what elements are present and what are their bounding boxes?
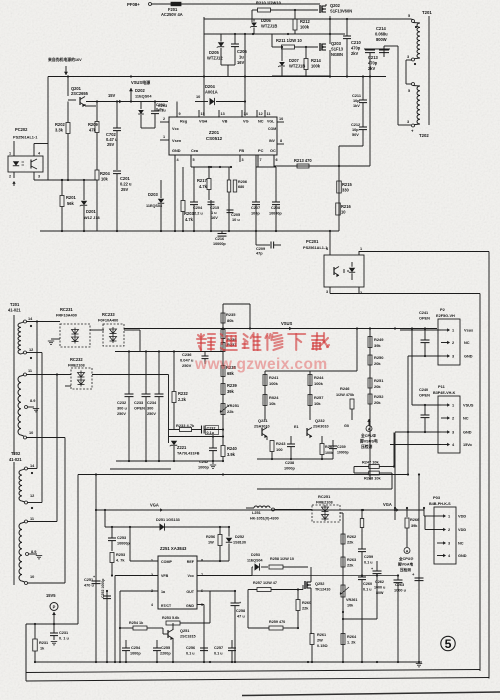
svg-text:PS2561AL1-1: PS2561AL1-1	[303, 246, 328, 250]
svg-text:2: 2	[151, 573, 153, 577]
svg-text:C207: C207	[251, 206, 260, 210]
svg-text:脚VGA电: 脚VGA电	[397, 562, 413, 567]
svg-text:20k: 20k	[374, 361, 381, 366]
svg-text:1/2W 470k: 1/2W 470k	[336, 393, 355, 397]
svg-text:R251: R251	[374, 378, 384, 383]
svg-text:300 u: 300 u	[117, 407, 127, 411]
svg-text:4.7k: 4.7k	[185, 217, 194, 222]
svg-text:C202: C202	[156, 103, 165, 107]
svg-text:C239: C239	[337, 445, 346, 449]
svg-text:E2F5G-VH: E2F5G-VH	[436, 314, 455, 318]
svg-text:2W: 2W	[317, 639, 323, 643]
svg-text:2SC1815: 2SC1815	[180, 635, 196, 639]
svg-text:R202: R202	[55, 122, 65, 127]
svg-text:R209: R209	[88, 122, 98, 127]
svg-text:C215: C215	[210, 206, 220, 210]
svg-text:10000p: 10000p	[269, 212, 282, 216]
svg-text:C236: C236	[182, 352, 192, 357]
svg-text:2SC2655: 2SC2655	[71, 91, 89, 96]
svg-text:1S8130: 1S8130	[233, 541, 246, 545]
svg-text:R258 1/2W 10: R258 1/2W 10	[270, 557, 294, 561]
svg-text:1kV: 1kV	[353, 104, 360, 108]
svg-text:HK-1051(X)-4300: HK-1051(X)-4300	[250, 517, 279, 521]
svg-text:0.22 u: 0.22 u	[120, 182, 132, 187]
svg-text:R253: R253	[116, 553, 125, 557]
svg-text:C240: C240	[419, 388, 428, 392]
svg-text:G0: G0	[344, 424, 349, 428]
svg-text:R217: R217	[197, 178, 207, 183]
svg-text:GND: GND	[463, 431, 472, 435]
svg-text:RT/CT: RT/CT	[161, 604, 172, 608]
svg-text:0.1u: 0.1u	[207, 431, 215, 435]
svg-text:1: 1	[151, 559, 153, 563]
svg-text:L251: L251	[252, 511, 262, 515]
svg-text:15V: 15V	[108, 93, 116, 98]
svg-text:0.1 u: 0.1 u	[214, 652, 223, 656]
svg-text:3: 3	[38, 175, 40, 179]
svg-text:0.1 u: 0.1 u	[363, 588, 372, 592]
svg-text:100k: 100k	[269, 381, 279, 386]
svg-text:0. 1 u: 0. 1 u	[59, 637, 69, 641]
svg-text:VGA: VGA	[383, 502, 392, 507]
svg-text:3: 3	[448, 542, 450, 546]
svg-text:WTZJ1B: WTZJ1B	[289, 64, 305, 69]
svg-text:C232: C232	[117, 401, 126, 405]
svg-text:C252 1000p: C252 1000p	[101, 579, 105, 598]
svg-text:来自伪机电源的16V: 来自伪机电源的16V	[47, 57, 82, 62]
svg-text:NGBN: NGBN	[331, 52, 343, 57]
svg-text:C238: C238	[285, 461, 295, 465]
svg-text:REF: REF	[187, 560, 195, 564]
svg-text:47 u: 47 u	[237, 615, 245, 619]
svg-text:NC: NC	[458, 542, 464, 546]
svg-text:R203: R203	[184, 211, 194, 216]
svg-text:RC251: RC251	[318, 494, 331, 499]
svg-text:5: 5	[201, 603, 203, 607]
svg-text:A001A: A001A	[205, 90, 218, 95]
svg-text:Reg: Reg	[180, 120, 188, 124]
svg-text:3.9k: 3.9k	[227, 452, 236, 457]
svg-text:C205: C205	[231, 213, 241, 217]
svg-text:8.9: 8.9	[31, 550, 36, 554]
svg-text:D205: D205	[209, 50, 219, 55]
svg-text:1. 2k: 1. 2k	[347, 641, 356, 645]
svg-text:3: 3	[242, 158, 244, 162]
svg-text:8.9: 8.9	[30, 399, 35, 403]
svg-text:脚VSUS电: 脚VSUS电	[359, 439, 378, 444]
svg-text:0.1 u: 0.1 u	[364, 561, 373, 565]
svg-text:R204: R204	[100, 171, 110, 176]
svg-text:R264: R264	[347, 635, 357, 639]
svg-text:4. 7k: 4. 7k	[116, 559, 125, 563]
svg-text:2200p: 2200p	[160, 652, 171, 656]
svg-text:Vcc: Vcc	[172, 127, 180, 131]
svg-text:NC: NC	[464, 341, 470, 345]
svg-text:GND: GND	[464, 355, 473, 359]
svg-text:3.3k: 3.3k	[55, 128, 64, 133]
svg-text:3: 3	[452, 431, 454, 435]
svg-text:300: 300	[147, 407, 153, 411]
svg-text:R210 1/2W10: R210 1/2W10	[256, 1, 282, 6]
svg-text:680: 680	[238, 185, 244, 189]
svg-text:3: 3	[326, 290, 328, 294]
svg-text:0.1 u: 0.1 u	[186, 652, 195, 656]
svg-text:16V: 16V	[237, 60, 245, 65]
svg-text:WTZJ1B: WTZJ1B	[261, 24, 277, 29]
svg-text:7: 7	[201, 573, 203, 577]
svg-text:22k: 22k	[302, 607, 309, 611]
svg-text:D206: D206	[261, 18, 271, 23]
svg-text:C258: C258	[236, 609, 246, 613]
svg-text:GND: GND	[458, 554, 467, 558]
svg-text:R241: R241	[269, 375, 279, 380]
svg-text:COMP: COMP	[161, 560, 172, 564]
svg-text:R266: R266	[410, 518, 419, 522]
svg-text:全CPU⑦: 全CPU⑦	[398, 556, 414, 561]
svg-text:4.7k: 4.7k	[199, 184, 208, 189]
svg-text:C208: C208	[271, 206, 281, 210]
svg-text:16V: 16V	[211, 216, 218, 220]
svg-text:R231: R231	[39, 641, 49, 645]
svg-text:R215: R215	[342, 182, 352, 187]
svg-text:R247 10k: R247 10k	[362, 461, 380, 465]
svg-text:C201: C201	[120, 176, 130, 181]
svg-text:INV: INV	[269, 139, 276, 143]
svg-text:R244: R244	[314, 375, 324, 380]
svg-text:1u: 1u	[239, 55, 244, 60]
svg-text:80k: 80k	[227, 318, 234, 323]
svg-text:压检测: 压检测	[400, 567, 411, 572]
svg-text:470p: 470p	[351, 46, 361, 51]
svg-text:0.15Ω: 0.15Ω	[317, 644, 328, 648]
svg-text:R260: R260	[302, 601, 311, 605]
svg-text:D251: D251	[156, 518, 166, 522]
svg-text:D202: D202	[135, 88, 145, 93]
svg-text:2: 2	[452, 341, 454, 345]
svg-text:2.2 u: 2.2 u	[194, 212, 203, 216]
svg-text:1000 u: 1000 u	[394, 589, 407, 593]
svg-text:R253 5.6k: R253 5.6k	[162, 616, 180, 620]
svg-text:FME2108: FME2108	[316, 501, 334, 505]
svg-text:Q202: Q202	[330, 3, 341, 8]
svg-text:T202: T202	[11, 451, 21, 456]
svg-text:PF08+: PF08+	[127, 2, 140, 7]
svg-text:100k: 100k	[300, 25, 310, 30]
svg-text:OUT: OUT	[186, 590, 194, 594]
svg-text:RC233: RC233	[102, 312, 115, 317]
svg-text:www.gzweix.com: www.gzweix.com	[194, 356, 328, 373]
svg-text:PC201: PC201	[306, 239, 319, 244]
svg-text:R248 10k: R248 10k	[364, 477, 382, 481]
svg-text:10k: 10k	[269, 401, 276, 406]
svg-text:C262: C262	[375, 580, 384, 584]
svg-text:CS0512: CS0512	[206, 136, 223, 141]
svg-text:R249: R249	[374, 337, 384, 342]
svg-text:8: 8	[201, 559, 203, 563]
svg-text:D201: D201	[86, 209, 96, 214]
svg-text:C214: C214	[376, 26, 386, 31]
svg-text:W1Z J18: W1Z J18	[84, 216, 100, 220]
svg-text:C233: C233	[134, 401, 143, 405]
svg-text:6: 6	[276, 158, 278, 162]
svg-text:10000p: 10000p	[337, 451, 349, 455]
svg-text:D203: D203	[148, 192, 158, 197]
svg-text:TK12410: TK12410	[315, 588, 330, 592]
svg-text:D204: D204	[205, 84, 215, 89]
svg-text:1W: 1W	[208, 541, 214, 545]
svg-text:22k: 22k	[347, 541, 354, 545]
svg-text:C259: C259	[364, 555, 373, 559]
svg-text:250V: 250V	[117, 412, 126, 416]
svg-text:PC202: PC202	[15, 127, 28, 132]
svg-text:47k: 47k	[89, 128, 97, 133]
svg-text:R243: R243	[276, 441, 286, 446]
svg-text:C257: C257	[214, 646, 223, 650]
svg-text:A: A	[368, 427, 371, 431]
svg-text:VFB: VFB	[161, 574, 169, 578]
svg-text:2: 2	[360, 291, 362, 295]
svg-text:15V5: 15V5	[46, 593, 56, 598]
svg-text:1: 1	[360, 247, 362, 251]
svg-text:39k: 39k	[374, 343, 381, 348]
svg-text:S1F13V60N: S1F13V60N	[330, 9, 352, 14]
svg-text:50V: 50V	[352, 133, 359, 137]
svg-text:10: 10	[279, 117, 283, 121]
svg-text:Q232: Q232	[315, 418, 325, 423]
svg-text:1000p: 1000p	[130, 652, 141, 656]
svg-text:OC: OC	[270, 149, 276, 153]
svg-text:R024: R024	[269, 395, 279, 400]
svg-text:1GS133: 1GS133	[166, 518, 180, 522]
svg-text:OPEN: OPEN	[419, 317, 430, 321]
svg-text:FB: FB	[239, 149, 244, 153]
svg-text:R213 470: R213 470	[294, 158, 312, 163]
svg-text:C254: C254	[131, 646, 141, 650]
svg-text:2: 2	[9, 175, 11, 179]
svg-text:2SK3010: 2SK3010	[313, 425, 329, 429]
svg-text:R212: R212	[300, 19, 310, 24]
svg-text:41-021: 41-021	[8, 308, 21, 313]
svg-text:VGA: VGA	[150, 503, 159, 508]
svg-text:GND: GND	[172, 149, 181, 153]
svg-text:AC250V 4A: AC250V 4A	[161, 12, 183, 17]
svg-text:P2: P2	[440, 307, 446, 312]
svg-text:Vsen: Vsen	[172, 139, 182, 143]
svg-text:20k: 20k	[374, 400, 381, 405]
svg-text:E1: E1	[294, 425, 299, 429]
svg-text:1 u: 1 u	[211, 211, 217, 215]
svg-text:C263: C263	[395, 583, 404, 587]
svg-text:2: 2	[448, 528, 450, 532]
svg-text:C206: C206	[237, 49, 247, 54]
svg-text:470p: 470p	[368, 61, 378, 66]
svg-text:R239: R239	[227, 383, 237, 388]
svg-text:C260: C260	[363, 582, 372, 586]
svg-text:470 u: 470 u	[84, 584, 94, 588]
svg-text:1000p: 1000p	[284, 467, 296, 471]
svg-text:11EQS04: 11EQS04	[135, 95, 152, 99]
svg-text:VSUS: VSUS	[463, 404, 474, 408]
svg-text:R254 1k: R254 1k	[129, 621, 144, 625]
svg-text:C253: C253	[117, 536, 126, 540]
svg-text:全CPU⑤: 全CPU⑤	[360, 433, 377, 438]
svg-text:100: 100	[276, 447, 283, 452]
svg-text:B3P4E-VH-K: B3P4E-VH-K	[433, 391, 456, 395]
svg-text:NC: NC	[258, 120, 264, 124]
svg-text:0.1u: 0.1u	[156, 108, 164, 112]
svg-text:P11: P11	[438, 384, 446, 389]
svg-text:PC: PC	[258, 149, 264, 153]
svg-text:Z201: Z201	[209, 130, 220, 135]
svg-text:Z221: Z221	[177, 445, 187, 450]
svg-text:GND: GND	[186, 604, 194, 608]
svg-text:2.2k: 2.2k	[178, 397, 187, 402]
svg-text:A: A	[406, 549, 409, 553]
svg-text:R246: R246	[340, 386, 350, 391]
svg-text:R263: R263	[347, 558, 356, 562]
svg-text:250V: 250V	[147, 412, 156, 416]
svg-text:VG: VG	[243, 120, 249, 124]
svg-text:7: 7	[260, 158, 262, 162]
svg-text:10k: 10k	[347, 604, 354, 608]
svg-text:41-021: 41-021	[9, 457, 22, 462]
svg-text:C231: C231	[59, 631, 69, 635]
svg-text:VDD: VDD	[458, 528, 466, 532]
svg-text:VB: VB	[222, 120, 228, 124]
svg-text:R256: R256	[206, 535, 215, 539]
svg-text:Cea: Cea	[191, 149, 199, 153]
svg-text:4: 4	[151, 603, 153, 607]
svg-text:FRF10A400: FRF10A400	[56, 314, 77, 318]
svg-text:COM: COM	[268, 127, 276, 131]
svg-text:R201: R201	[66, 195, 76, 200]
svg-text:1000p: 1000p	[198, 466, 210, 470]
svg-text:0.047 u: 0.047 u	[180, 358, 194, 363]
svg-text:1: 1	[163, 135, 165, 139]
svg-text:10k: 10k	[314, 401, 321, 406]
svg-text:R250: R250	[374, 355, 384, 360]
svg-text:C210: C210	[351, 40, 361, 45]
svg-text:10p: 10p	[352, 128, 359, 132]
svg-text:12: 12	[259, 112, 263, 116]
svg-text:RC232: RC232	[70, 357, 83, 362]
svg-text:12: 12	[30, 494, 34, 498]
svg-text:2kV: 2kV	[368, 66, 376, 71]
svg-text:39k: 39k	[411, 524, 418, 528]
svg-text:3: 3	[452, 355, 454, 359]
svg-text:10: 10	[341, 210, 346, 215]
svg-text:10 u: 10 u	[232, 218, 240, 222]
svg-text:8: 8	[280, 139, 282, 143]
svg-text:9: 9	[179, 112, 181, 116]
svg-text:R214: R214	[311, 58, 321, 63]
svg-text:VSUS电源: VSUS电源	[131, 79, 151, 85]
svg-text:P: P	[53, 605, 56, 610]
svg-text:25V: 25V	[121, 187, 129, 192]
svg-text:压检测: 压检测	[361, 444, 373, 449]
svg-text:C256: C256	[186, 646, 195, 650]
svg-text:47p: 47p	[256, 252, 263, 256]
svg-text:R235: R235	[226, 312, 236, 317]
svg-text:C204: C204	[193, 206, 203, 210]
svg-text:Z251 XA3843: Z251 XA3843	[160, 546, 187, 551]
svg-text:2: 2	[163, 117, 165, 121]
svg-text:1000 u: 1000 u	[374, 586, 385, 590]
svg-text:25V: 25V	[107, 142, 115, 147]
svg-text:20k: 20k	[374, 384, 381, 389]
svg-text:11EQS04: 11EQS04	[247, 559, 263, 563]
svg-text:2: 2	[452, 417, 454, 421]
svg-text:R232: R232	[178, 391, 188, 396]
svg-text:C255: C255	[161, 646, 171, 650]
svg-text:330: 330	[342, 188, 350, 193]
svg-text:2SA3010: 2SA3010	[254, 425, 270, 429]
svg-text:VGH: VGH	[199, 120, 208, 124]
svg-text:10k: 10k	[101, 177, 109, 182]
svg-text:13: 13	[221, 112, 225, 116]
svg-text:10: 10	[29, 431, 33, 435]
svg-text:22k: 22k	[227, 409, 234, 414]
svg-text:10p: 10p	[353, 99, 360, 103]
svg-text:R216: R216	[341, 204, 351, 209]
svg-text:R257 1/2W 47: R257 1/2W 47	[253, 581, 277, 585]
svg-text:12: 12	[29, 348, 33, 352]
svg-text:T201: T201	[422, 10, 432, 15]
svg-text:S1F13: S1F13	[331, 47, 344, 52]
svg-text:C234: C234	[147, 401, 157, 405]
svg-text:100k: 100k	[311, 64, 321, 69]
svg-text:5: 5	[445, 637, 452, 651]
svg-text:R240: R240	[227, 446, 237, 451]
svg-text:250V: 250V	[182, 363, 192, 368]
svg-text:T202: T202	[419, 133, 429, 138]
svg-text:Q203: Q203	[331, 41, 342, 46]
svg-text:TA79L431FB: TA79L431FB	[177, 452, 200, 456]
svg-text:80W: 80W	[376, 591, 384, 595]
svg-text:11EQS04: 11EQS04	[146, 204, 163, 208]
svg-text:OPEN: OPEN	[134, 407, 145, 411]
svg-text:PS2561AL1-1: PS2561AL1-1	[13, 136, 38, 140]
svg-text:C216: C216	[215, 237, 224, 241]
svg-text:15Vo: 15Vo	[463, 443, 473, 447]
svg-text:0.068u: 0.068u	[375, 32, 388, 37]
svg-text:NC: NC	[463, 417, 469, 421]
svg-text:WTZJ12: WTZJ12	[207, 56, 223, 61]
svg-text:15: 15	[201, 112, 205, 116]
svg-text:R206: R206	[238, 180, 247, 184]
svg-text:R257: R257	[314, 395, 324, 400]
svg-text:C241: C241	[419, 311, 429, 315]
svg-text:100p: 100p	[251, 212, 260, 216]
svg-text:5: 5	[193, 158, 195, 162]
svg-text:Vcc: Vcc	[188, 574, 194, 578]
svg-text:VSUS: VSUS	[281, 321, 293, 326]
svg-text:10: 10	[30, 575, 34, 579]
svg-text:R262: R262	[347, 535, 356, 539]
svg-text:F0F10A400: F0F10A400	[98, 319, 118, 323]
svg-text:10000p: 10000p	[213, 242, 226, 246]
svg-text:D207: D207	[289, 58, 299, 63]
svg-text:56k: 56k	[67, 201, 75, 206]
svg-text:R252: R252	[374, 394, 384, 399]
svg-text:10000p: 10000p	[117, 542, 130, 546]
svg-text:P03: P03	[433, 495, 441, 500]
svg-text:22k: 22k	[347, 564, 354, 568]
svg-text:RC231: RC231	[60, 307, 73, 312]
svg-text:3: 3	[407, 55, 409, 59]
svg-text:11: 11	[267, 112, 271, 116]
svg-text:C211: C211	[352, 94, 362, 98]
